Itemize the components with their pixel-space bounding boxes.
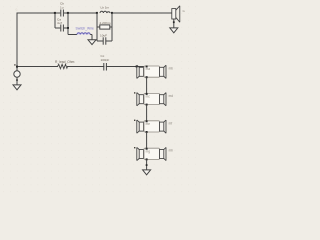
wire middle horizontal segment 3 xyxy=(106,66,146,68)
pin tick xyxy=(14,64,15,65)
svg-text:R_lead_Ohm: R_lead_Ohm xyxy=(55,60,75,64)
svg-text:Lb 1m: Lb 1m xyxy=(101,6,110,10)
svg-text:mh: mh xyxy=(169,149,174,153)
wire coil to ground xyxy=(90,35,92,40)
svg-text:md: md xyxy=(169,94,174,98)
wire middle horizontal segment 2 xyxy=(68,66,104,68)
junction dot box1 bottom xyxy=(146,76,148,78)
node row3 left xyxy=(134,120,135,121)
junction dot speaker stem xyxy=(173,21,175,23)
junction dot box4 top xyxy=(146,148,148,150)
capacitor Ca (parallel branch) xyxy=(55,25,68,32)
row 1 xyxy=(136,65,174,78)
junction dot box2 bottom xyxy=(146,104,148,106)
wire top horizontal segment 2 xyxy=(68,12,97,14)
row 3 xyxy=(134,120,172,134)
svg-text:o.: o. xyxy=(16,8,19,12)
wire speaker to ground xyxy=(173,19,175,28)
ground (chain bottom) xyxy=(143,170,151,175)
speaker M4a xyxy=(137,147,144,160)
speaker LS1 (top right) xyxy=(172,6,180,22)
ground (speaker) xyxy=(170,28,178,33)
speaker M2a xyxy=(137,93,144,106)
wire row3-row4 xyxy=(146,132,148,148)
svg-text:Switch_Wire: Switch_Wire xyxy=(76,27,94,31)
wire C-block left rail xyxy=(54,13,56,28)
svg-text:10uF: 10uF xyxy=(100,33,107,37)
speaker M1a xyxy=(137,65,144,78)
wire L-block left rail xyxy=(96,13,98,41)
svg-text:2.2Ohm: 2.2Ohm xyxy=(100,21,111,25)
junction dot box4 bottom xyxy=(146,158,148,160)
junction dot top B xyxy=(67,12,69,14)
wire row2-row3 xyxy=(146,105,148,121)
svg-text:mg: mg xyxy=(146,149,151,153)
svg-text:1u: 1u xyxy=(60,5,64,9)
svg-text:4u7: 4u7 xyxy=(57,21,62,25)
inductor L_wire (blue) xyxy=(77,33,90,35)
ground (blue branch) xyxy=(88,40,96,45)
svg-text:100nF: 100nF xyxy=(101,58,110,62)
junction dot L left xyxy=(96,12,98,14)
resistor R_lead (middle wire, zigzag) xyxy=(58,64,68,68)
row 4 xyxy=(134,147,173,161)
wire top horizontal segment 1 xyxy=(17,12,55,14)
row 2 xyxy=(134,92,173,106)
svg-text:mb: mb xyxy=(169,67,174,71)
junction dot box1 top xyxy=(146,66,148,68)
capacitor Cb (top wire) xyxy=(55,10,68,17)
wire middle horizontal segment 1 xyxy=(17,66,58,68)
speaker M3b xyxy=(160,120,167,133)
wire top horizontal segment 3 xyxy=(112,12,172,14)
body box M1 xyxy=(144,66,160,77)
node row4 left xyxy=(134,147,135,148)
svg-text:mf: mf xyxy=(169,121,173,125)
svg-text:ma: ma xyxy=(146,67,151,71)
wire C-block right rail xyxy=(67,13,69,28)
junction dot branch xyxy=(67,27,69,29)
junction dot top A xyxy=(54,12,56,14)
svg-text:me: me xyxy=(146,122,151,126)
capacitor Cc2 (bottom rail of tank) xyxy=(97,37,112,44)
wire row1-row2 xyxy=(146,77,148,93)
junction dot box3 bottom xyxy=(146,131,148,133)
svg-text:mc: mc xyxy=(146,95,151,99)
node row2 left xyxy=(134,92,135,93)
node row1 left xyxy=(136,66,138,68)
inductor Lb (top wire) xyxy=(100,11,110,13)
body box M4 xyxy=(144,148,160,159)
pin dot chain bottom xyxy=(146,164,148,166)
speaker M2b xyxy=(160,93,167,106)
speaker M4b xyxy=(160,147,167,160)
junction dot box3 top xyxy=(146,120,148,122)
junction dot L right xyxy=(111,12,113,14)
grid dots xyxy=(0,0,1,1)
body box M3 xyxy=(144,121,160,132)
wire L-block right rail xyxy=(111,13,113,41)
wire down from C2 to blue coil xyxy=(68,28,77,35)
junction dot box2 top xyxy=(146,93,148,95)
wire top-left vertical xyxy=(16,13,18,67)
ground (source) xyxy=(13,85,21,90)
speaker M3a xyxy=(137,120,144,133)
speaker M1b xyxy=(160,65,167,78)
junction dot source xyxy=(16,66,18,68)
wire row4 to ground xyxy=(146,159,148,169)
source V1 xyxy=(14,67,20,85)
capacitor Cc (middle wire) xyxy=(104,63,107,71)
body box M2 xyxy=(144,93,160,104)
pin dot source xyxy=(16,79,18,81)
resistor Rb (box) xyxy=(97,25,112,29)
